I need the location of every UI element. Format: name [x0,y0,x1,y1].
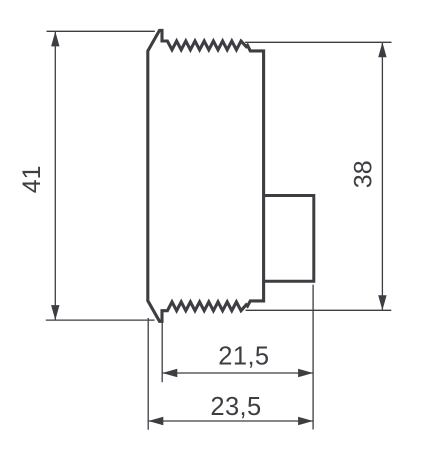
dimension 38: upper arrowhead [378,42,386,57]
svg-text:41: 41 [18,165,46,193]
dimension 23,5: dimension line [148,420,313,422]
part outline (threaded bushing cross-section) [148,30,264,321]
svg-text:21,5: 21,5 [218,342,269,370]
dimension 38: bottom extension line [246,309,392,311]
svg-text:38: 38 [350,160,378,188]
dimension 23,5: left extension line [147,318,149,430]
svg-text:23,5: 23,5 [210,393,261,421]
dimension 41: upper arrowhead [51,31,59,46]
dimension 21,5: right arrowhead [298,369,313,377]
dimension 21,5: left extension line [161,323,163,383]
dimension 41: dimension line [54,31,56,320]
dimension 23,5: left arrowhead [148,417,163,425]
boss rectangle on right side [264,196,314,282]
dimension 21,5: dimension line [162,372,313,374]
dimension 21,5 and 23,5: shared right extension line [312,285,314,430]
dimension 38: dimension line [381,42,383,310]
dimension 41: lower arrowhead [51,305,59,320]
dimension 21,5: left arrowhead [162,369,177,377]
dimension 41: bottom extension line [46,319,155,321]
dimension 41: top extension line [47,30,155,32]
dimension 38: lower arrowhead [378,295,386,310]
dimension 23,5: right arrowhead [298,417,313,425]
dimension 38: top extension line [245,41,391,43]
